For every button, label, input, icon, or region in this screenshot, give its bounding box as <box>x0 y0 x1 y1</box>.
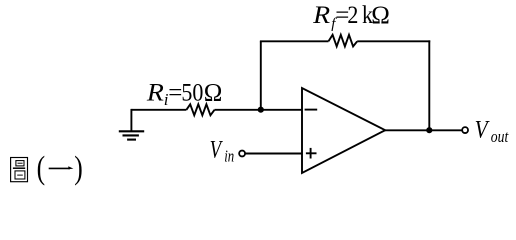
node B (output junction dot) <box>426 127 432 133</box>
node A (junction dot) <box>258 107 264 113</box>
svg-text:(: ( <box>37 150 46 186</box>
wire feedback left vertical <box>260 41 262 109</box>
op-amp U1 <box>302 88 385 173</box>
wire Ri to op-amp inverting input <box>215 109 303 111</box>
resistor Rf <box>329 35 358 47</box>
svg-text:=: = <box>168 79 182 106</box>
wire feedback top right <box>357 40 430 42</box>
hanzi 圖 middle bar <box>13 167 25 169</box>
op-amp plus sign <box>306 152 317 154</box>
hanzi 圖 top small box <box>16 161 24 166</box>
wire op-amp output <box>385 129 462 131</box>
svg-text:out: out <box>491 127 510 146</box>
svg-text:V: V <box>210 137 224 164</box>
label Rf=2kΩ <box>312 2 390 32</box>
svg-text:Ω: Ω <box>204 79 223 106</box>
op-amp minus sign <box>305 109 318 111</box>
hanzi 圖 outer box <box>11 158 28 182</box>
wire Vin to op-amp plus input <box>245 153 302 155</box>
svg-text:R: R <box>312 2 330 29</box>
label Vin <box>210 137 235 166</box>
hanzi 圖 bottom box <box>15 171 25 179</box>
svg-text:): ) <box>74 150 83 186</box>
svg-text:0: 0 <box>192 79 203 106</box>
wire feedback right vertical <box>428 40 430 130</box>
Vin terminal circle <box>239 151 245 157</box>
label Ri=50Ω <box>146 79 223 109</box>
svg-text:in: in <box>224 147 234 166</box>
label Vout <box>475 117 510 147</box>
ground <box>119 109 144 140</box>
Vout terminal circle <box>462 127 468 133</box>
hanzi 一 stroke <box>49 167 70 169</box>
svg-text:Ω: Ω <box>371 2 390 29</box>
svg-text:R: R <box>146 79 164 106</box>
parenthesis ( <box>37 150 83 186</box>
svg-text:V: V <box>475 117 490 144</box>
wire feedback top left <box>260 40 329 42</box>
wire ground to Ri <box>131 109 186 111</box>
svg-text:5: 5 <box>181 79 192 106</box>
svg-text:2: 2 <box>347 2 358 29</box>
caption 圖(一) figure label <box>11 150 83 186</box>
resistor Ri <box>186 104 214 115</box>
